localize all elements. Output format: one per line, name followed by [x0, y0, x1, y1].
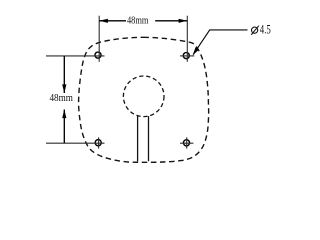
svg-text:48mm: 48mm — [49, 92, 73, 104]
svg-text:4.5: 4.5 — [260, 23, 271, 37]
svg-text:48mm: 48mm — [127, 15, 149, 27]
